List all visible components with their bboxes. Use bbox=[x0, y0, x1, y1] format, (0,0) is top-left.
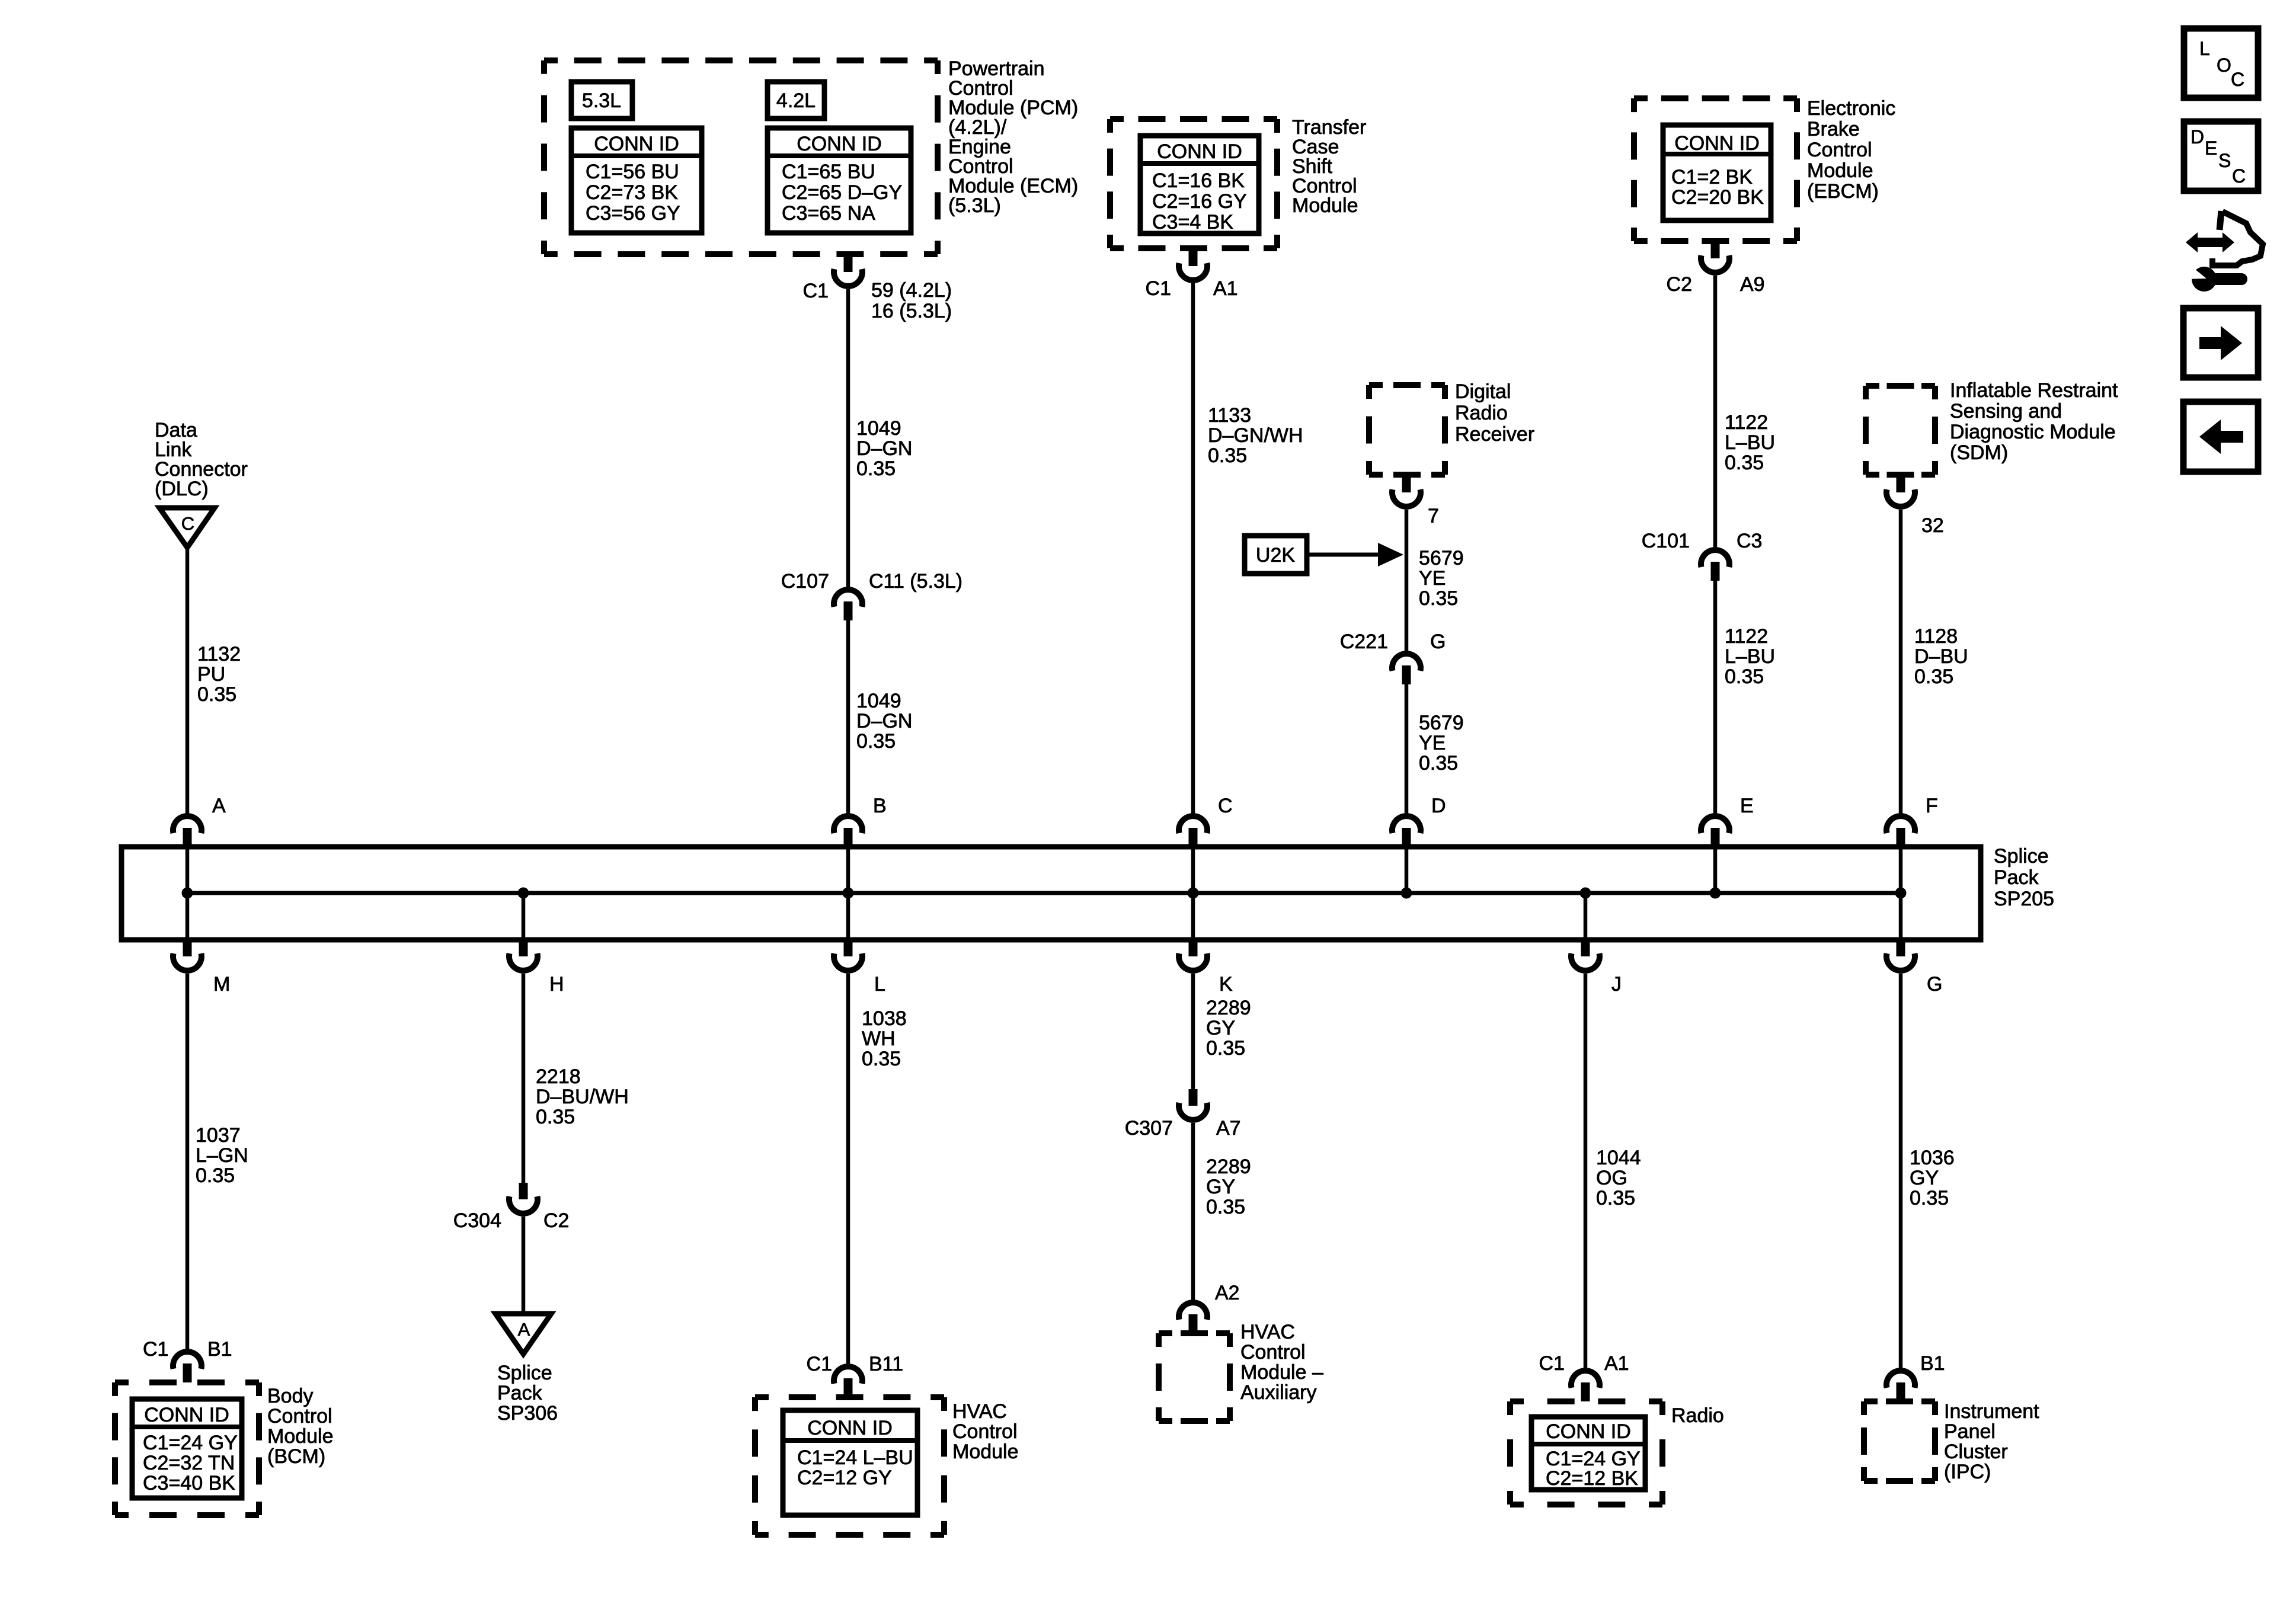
svg-text:C2: C2 bbox=[543, 1209, 569, 1232]
svg-text:1037: 1037 bbox=[196, 1124, 241, 1147]
svg-text:Sensing and: Sensing and bbox=[1950, 400, 2062, 422]
svg-text:5679: 5679 bbox=[1419, 712, 1464, 734]
svg-text:CONN ID: CONN ID bbox=[594, 133, 679, 155]
svg-text:Radio: Radio bbox=[1455, 402, 1508, 424]
svg-text:B11: B11 bbox=[869, 1353, 903, 1375]
svg-text:Pack: Pack bbox=[497, 1382, 543, 1404]
svg-text:1122: 1122 bbox=[1725, 411, 1768, 434]
svg-text:1049: 1049 bbox=[856, 417, 901, 440]
svg-text:C2=73 BK: C2=73 BK bbox=[586, 181, 678, 204]
wire 1132 PU (DLC to splice A) bbox=[186, 548, 190, 815]
svg-text:C1=16 BK: C1=16 BK bbox=[1152, 169, 1245, 192]
svg-text:S: S bbox=[2218, 150, 2231, 171]
svg-text:C2=12 GY: C2=12 GY bbox=[797, 1467, 892, 1489]
svg-text:C3=65 NA: C3=65 NA bbox=[782, 202, 875, 225]
svg-text:CONN ID: CONN ID bbox=[797, 133, 882, 155]
module IPC dashed box bbox=[1864, 1398, 1935, 1404]
svg-text:Control: Control bbox=[1240, 1341, 1306, 1363]
svg-text:C: C bbox=[181, 513, 194, 534]
svg-text:C11 (5.3L): C11 (5.3L) bbox=[869, 570, 962, 593]
svg-text:Electronic: Electronic bbox=[1807, 97, 1895, 120]
wire 1044 OG (splice J to Radio) bbox=[1584, 974, 1588, 1369]
svg-text:G: G bbox=[1430, 630, 1446, 653]
svg-text:Module: Module bbox=[1807, 159, 1873, 182]
connector C101 / C3 bbox=[1701, 550, 1729, 581]
svg-text:Splice: Splice bbox=[1994, 845, 2049, 868]
svg-text:Body: Body bbox=[267, 1385, 314, 1407]
connector F bbox=[1886, 816, 1915, 847]
wire 5679 YE (DRR to C221) bbox=[1405, 510, 1409, 652]
connector M bbox=[173, 940, 202, 971]
svg-text:HVAC: HVAC bbox=[952, 1400, 1007, 1423]
svg-text:GY: GY bbox=[1206, 1176, 1235, 1198]
svg-text:C3=56 GY: C3=56 GY bbox=[586, 202, 680, 225]
svg-text:(EBCM): (EBCM) bbox=[1807, 180, 1879, 203]
svg-text:CONN ID: CONN ID bbox=[1674, 132, 1760, 155]
icon DESC box bbox=[2184, 121, 2258, 191]
svg-text:CONN ID: CONN ID bbox=[1546, 1420, 1631, 1443]
svg-text:A: A bbox=[518, 1319, 530, 1340]
svg-text:C: C bbox=[2232, 165, 2246, 187]
svg-text:Module: Module bbox=[267, 1425, 334, 1448]
icon diagnostic tools (arrow and wrench) bbox=[2186, 232, 2234, 252]
svg-text:D: D bbox=[1431, 795, 1446, 817]
wire 2289 GY (splice K to C307) bbox=[1191, 974, 1195, 1089]
connector J bbox=[1571, 940, 1600, 971]
svg-text:B1: B1 bbox=[1920, 1352, 1945, 1375]
svg-text:Module: Module bbox=[952, 1441, 1019, 1463]
svg-text:C1: C1 bbox=[1146, 277, 1171, 300]
svg-text:C3: C3 bbox=[1737, 530, 1762, 552]
svg-text:D–BU: D–BU bbox=[1914, 645, 1968, 668]
connector K bbox=[1179, 940, 1207, 971]
svg-text:C1=2 BK: C1=2 BK bbox=[1671, 166, 1753, 188]
svg-text:HVAC: HVAC bbox=[1240, 1321, 1295, 1343]
svg-text:K: K bbox=[1219, 973, 1233, 996]
svg-text:1133: 1133 bbox=[1208, 404, 1251, 427]
svg-text:(BCM): (BCM) bbox=[267, 1445, 325, 1468]
connector C1/B1 at BCM bbox=[173, 1352, 202, 1382]
svg-text:C2=32 TN: C2=32 TN bbox=[143, 1452, 235, 1474]
wire 1133 D–GN/WH (TCSCM to splice C) bbox=[1191, 283, 1195, 815]
svg-text:5679: 5679 bbox=[1419, 547, 1464, 569]
svg-text:Inflatable Restraint: Inflatable Restraint bbox=[1950, 379, 2118, 402]
svg-text:0.35: 0.35 bbox=[1725, 665, 1764, 688]
svg-text:C1=65 BU: C1=65 BU bbox=[782, 161, 875, 183]
connector pin 7 at Digital Radio Receiver bbox=[1392, 476, 1421, 507]
svg-text:1128: 1128 bbox=[1914, 625, 1958, 648]
splice pack SP306 triangle A bbox=[495, 1314, 551, 1354]
connector H bbox=[509, 940, 538, 971]
svg-text:5.3L: 5.3L bbox=[582, 89, 621, 112]
wire stubs inside splice pack with junctions bbox=[186, 847, 190, 893]
wire (C304 to SP306) bbox=[522, 1217, 526, 1314]
svg-text:C221: C221 bbox=[1340, 630, 1388, 653]
svg-text:C1: C1 bbox=[1539, 1352, 1565, 1375]
svg-text:C1=56 BU: C1=56 BU bbox=[586, 161, 679, 183]
svg-text:A1: A1 bbox=[1604, 1352, 1629, 1375]
svg-text:0.35: 0.35 bbox=[1206, 1037, 1245, 1060]
svg-text:Control: Control bbox=[1807, 139, 1872, 161]
svg-text:1038: 1038 bbox=[862, 1007, 907, 1030]
svg-text:A2: A2 bbox=[1215, 1282, 1240, 1304]
svg-text:Instrument: Instrument bbox=[1944, 1400, 2039, 1423]
label 5.3L box bbox=[571, 82, 632, 119]
svg-text:C3=40 BK: C3=40 BK bbox=[143, 1472, 235, 1494]
module HVAC Control Module dashed box bbox=[755, 1394, 944, 1400]
svg-text:(DLC): (DLC) bbox=[155, 478, 209, 500]
svg-text:E: E bbox=[1740, 795, 1754, 817]
svg-text:0.35: 0.35 bbox=[862, 1048, 901, 1070]
EBCM CONN ID table bbox=[1663, 125, 1771, 220]
svg-text:0.35: 0.35 bbox=[1208, 444, 1247, 467]
PCM CONN ID table (4.2L) bbox=[768, 128, 911, 233]
connector pin C1 at PCM bbox=[834, 255, 862, 286]
svg-text:CONN ID: CONN ID bbox=[144, 1404, 229, 1426]
svg-text:SP205: SP205 bbox=[1994, 888, 2054, 910]
svg-text:0.35: 0.35 bbox=[196, 1164, 235, 1187]
svg-text:A1: A1 bbox=[1213, 277, 1238, 300]
svg-text:Pack: Pack bbox=[1994, 866, 2039, 889]
svg-text:C1: C1 bbox=[143, 1338, 168, 1361]
svg-text:D–GN/WH: D–GN/WH bbox=[1208, 424, 1303, 447]
svg-text:OG: OG bbox=[1596, 1167, 1627, 1189]
wire 1036 GY (splice G to IPC) bbox=[1899, 974, 1903, 1369]
wire 5679 YE (C221 to splice D) bbox=[1405, 684, 1409, 815]
svg-text:GY: GY bbox=[1206, 1017, 1235, 1039]
svg-text:0.35: 0.35 bbox=[1725, 452, 1764, 474]
svg-text:0.35: 0.35 bbox=[1206, 1196, 1245, 1218]
svg-text:E: E bbox=[2205, 137, 2217, 159]
module Digital Radio Receiver dashed box bbox=[1369, 382, 1445, 388]
svg-text:U2K: U2K bbox=[1256, 544, 1295, 566]
svg-text:16 (5.3L): 16 (5.3L) bbox=[871, 300, 952, 322]
svg-text:C1: C1 bbox=[803, 280, 829, 302]
svg-text:J: J bbox=[1611, 973, 1622, 996]
svg-text:Diagnostic Module: Diagnostic Module bbox=[1950, 421, 2116, 443]
svg-text:GY: GY bbox=[1910, 1167, 1939, 1189]
svg-text:2218: 2218 bbox=[536, 1065, 581, 1088]
svg-text:A9: A9 bbox=[1740, 273, 1765, 296]
svg-text:Brake: Brake bbox=[1807, 118, 1860, 140]
svg-text:WH: WH bbox=[862, 1028, 896, 1050]
module HVAC Control Module - Auxiliary dashed box bbox=[1159, 1330, 1230, 1336]
svg-text:C101: C101 bbox=[1642, 530, 1690, 552]
svg-text:B1: B1 bbox=[207, 1338, 232, 1361]
svg-text:L–BU: L–BU bbox=[1725, 645, 1775, 668]
svg-text:0.35: 0.35 bbox=[1910, 1187, 1949, 1209]
svg-text:1049: 1049 bbox=[856, 690, 901, 712]
wire bus SP205 bbox=[187, 891, 1901, 895]
svg-text:1132: 1132 bbox=[197, 643, 241, 665]
module BCM dashed box bbox=[115, 1379, 259, 1385]
svg-text:D–BU/WH: D–BU/WH bbox=[536, 1086, 629, 1108]
svg-text:(SDM): (SDM) bbox=[1950, 441, 2008, 464]
svg-text:0.35: 0.35 bbox=[856, 457, 896, 480]
svg-text:C307: C307 bbox=[1125, 1117, 1173, 1140]
connector C bbox=[1179, 816, 1207, 847]
HVAC CONN ID table bbox=[783, 1410, 917, 1515]
svg-text:2289: 2289 bbox=[1206, 1156, 1251, 1178]
BCM CONN ID table bbox=[132, 1399, 242, 1498]
svg-text:0.35: 0.35 bbox=[1419, 587, 1458, 610]
svg-text:32: 32 bbox=[1921, 514, 1944, 537]
connector A bbox=[173, 816, 202, 847]
module Transfer Case Shift Control Module dashed box bbox=[1110, 116, 1277, 122]
svg-text:2289: 2289 bbox=[1206, 997, 1251, 1019]
icon forward arrow box bbox=[2183, 308, 2258, 377]
svg-text:O: O bbox=[2217, 55, 2231, 76]
svg-text:C: C bbox=[1218, 795, 1233, 817]
connector C107 / C11 (5.3L) bbox=[834, 590, 862, 620]
svg-text:D–GN: D–GN bbox=[856, 437, 912, 460]
svg-text:CONN ID: CONN ID bbox=[807, 1417, 893, 1439]
svg-text:YE: YE bbox=[1419, 732, 1446, 754]
svg-text:D–GN: D–GN bbox=[856, 710, 912, 732]
icon LOC box bbox=[2184, 28, 2258, 98]
svg-text:C2=16 GY: C2=16 GY bbox=[1152, 190, 1247, 213]
svg-text:G: G bbox=[1927, 973, 1942, 996]
wire 2218 D–BU/WH (splice H to C304) bbox=[522, 974, 526, 1184]
connector pin 32 at SDM bbox=[1886, 476, 1915, 507]
svg-text:Module: Module bbox=[1292, 194, 1358, 217]
svg-text:C: C bbox=[2231, 69, 2244, 90]
svg-text:Auxiliary: Auxiliary bbox=[1240, 1381, 1316, 1404]
connector L bbox=[834, 940, 862, 971]
connector triangle C (DLC) bbox=[159, 508, 215, 548]
svg-text:1044: 1044 bbox=[1596, 1147, 1641, 1169]
svg-text:C1=24 GY: C1=24 GY bbox=[143, 1432, 238, 1454]
svg-text:C3=4 BK: C3=4 BK bbox=[1152, 211, 1233, 233]
svg-text:4.2L: 4.2L bbox=[776, 89, 816, 112]
svg-text:L–GN: L–GN bbox=[196, 1144, 248, 1167]
svg-text:(5.3L): (5.3L) bbox=[948, 194, 1001, 217]
connector B1 at IPC bbox=[1886, 1371, 1915, 1401]
svg-text:0.35: 0.35 bbox=[197, 683, 236, 706]
connector D bbox=[1392, 816, 1421, 847]
svg-text:YE: YE bbox=[1419, 567, 1446, 590]
icon back arrow box bbox=[2183, 402, 2258, 472]
svg-text:Splice: Splice bbox=[497, 1362, 552, 1384]
svg-text:0.35: 0.35 bbox=[1914, 665, 1953, 688]
connector B bbox=[834, 816, 862, 847]
svg-text:SP306: SP306 bbox=[497, 1402, 558, 1425]
Radio CONN ID table bbox=[1531, 1417, 1645, 1490]
svg-text:L: L bbox=[2199, 38, 2210, 59]
connector G bbox=[1886, 940, 1915, 971]
svg-text:Cluster: Cluster bbox=[1944, 1441, 2008, 1463]
svg-text:1036: 1036 bbox=[1910, 1147, 1955, 1169]
PCM CONN ID table (5.3L) bbox=[571, 128, 702, 233]
svg-text:(IPC): (IPC) bbox=[1944, 1461, 1991, 1483]
svg-text:C2=65 D–GY: C2=65 D–GY bbox=[782, 181, 902, 204]
svg-text:B: B bbox=[873, 795, 887, 817]
svg-text:Receiver: Receiver bbox=[1455, 423, 1534, 446]
svg-text:PU: PU bbox=[197, 663, 225, 686]
TCSCM CONN ID table bbox=[1140, 136, 1259, 233]
svg-text:L: L bbox=[874, 973, 885, 996]
svg-text:0.35: 0.35 bbox=[536, 1106, 575, 1128]
svg-text:H: H bbox=[549, 973, 564, 996]
svg-text:Panel: Panel bbox=[1944, 1420, 1996, 1443]
connector C221 / G bbox=[1392, 654, 1421, 684]
svg-text:C107: C107 bbox=[781, 570, 829, 593]
svg-text:C1: C1 bbox=[807, 1353, 832, 1375]
svg-text:1122: 1122 bbox=[1725, 625, 1768, 648]
wire 1049 D–GN (C107 to splice B) bbox=[846, 620, 850, 815]
connector C1/B11 at HVAC Control Module bbox=[834, 1366, 862, 1397]
module PCM/ECM dashed box bbox=[544, 57, 938, 63]
svg-text:C2=20 BK: C2=20 BK bbox=[1671, 186, 1764, 209]
svg-text:7: 7 bbox=[1428, 505, 1439, 527]
label 4.2L box bbox=[768, 82, 824, 119]
svg-text:C2=12 BK: C2=12 BK bbox=[1546, 1467, 1638, 1490]
wire 1038 WH (splice L to HVAC) bbox=[846, 974, 850, 1365]
wire 1122 L–BU (C101 to splice E) bbox=[1713, 581, 1718, 815]
svg-text:Radio: Radio bbox=[1671, 1404, 1724, 1427]
svg-text:A: A bbox=[212, 795, 226, 817]
label U2K box bbox=[1245, 536, 1307, 574]
svg-text:A7: A7 bbox=[1216, 1117, 1241, 1140]
connector E bbox=[1701, 816, 1729, 847]
connector pin C1/A1 at TCSCM bbox=[1179, 249, 1207, 280]
svg-text:59 (4.2L): 59 (4.2L) bbox=[871, 279, 952, 302]
connector C1/A1 at Radio bbox=[1571, 1371, 1600, 1401]
svg-text:M: M bbox=[213, 973, 230, 996]
wire 1049 D–GN (PCM C1 to C107) bbox=[846, 289, 850, 588]
svg-text:L–BU: L–BU bbox=[1725, 431, 1775, 454]
svg-text:F: F bbox=[1926, 795, 1938, 817]
svg-text:Digital: Digital bbox=[1455, 380, 1511, 403]
module SDM dashed box bbox=[1866, 383, 1935, 389]
wire U2K arrow bbox=[1307, 553, 1381, 557]
svg-text:0.35: 0.35 bbox=[1419, 752, 1458, 774]
module EBCM dashed box bbox=[1634, 95, 1797, 101]
svg-text:D: D bbox=[2191, 126, 2204, 148]
wire 2289 GY (C307 to HVAC aux) bbox=[1191, 1123, 1195, 1301]
splice pack SP205 box bbox=[121, 847, 1981, 940]
connector pin C2/A9 at EBCM bbox=[1701, 242, 1729, 273]
svg-text:C1=24 L–BU: C1=24 L–BU bbox=[797, 1446, 913, 1469]
svg-text:Control: Control bbox=[952, 1420, 1018, 1443]
connector C307 / A7 bbox=[1179, 1089, 1207, 1120]
svg-text:CONN ID: CONN ID bbox=[1157, 140, 1242, 163]
svg-text:Control: Control bbox=[267, 1405, 332, 1427]
wire 1128 D–BU (SDM to splice F) bbox=[1899, 510, 1903, 815]
wire 1037 L–GN (splice M to BCM) bbox=[186, 974, 190, 1350]
svg-text:C304: C304 bbox=[453, 1209, 501, 1232]
svg-text:Module –: Module – bbox=[1240, 1361, 1323, 1384]
connector A2 at HVAC Control Module - Auxiliary bbox=[1179, 1302, 1207, 1333]
svg-text:0.35: 0.35 bbox=[1596, 1187, 1635, 1209]
wire 1122 L–BU (EBCM to C101) bbox=[1713, 276, 1718, 549]
svg-text:0.35: 0.35 bbox=[856, 730, 896, 753]
module Radio dashed box bbox=[1510, 1398, 1662, 1404]
connector C304 / C2 bbox=[509, 1183, 538, 1214]
svg-text:C2: C2 bbox=[1667, 273, 1692, 296]
